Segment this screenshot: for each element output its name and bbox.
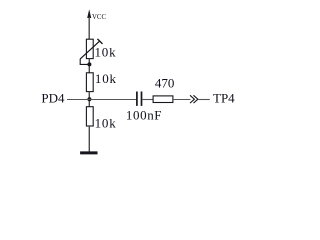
resistor R3 body <box>86 107 93 126</box>
svg-text:10k: 10k <box>95 115 117 130</box>
wire PD4 to capacitor C1 <box>67 99 136 101</box>
ground symbol <box>80 151 97 154</box>
svg-text:VCC: VCC <box>92 14 106 21</box>
potentiometer R1 wiper arrow <box>80 39 102 59</box>
node PD4 junction dot <box>87 97 91 101</box>
wire pot bottom to node A <box>88 59 90 73</box>
VCC supply arrow <box>87 9 91 39</box>
svg-text:10k: 10k <box>95 44 117 59</box>
wire chevron to TP4 <box>199 99 210 101</box>
wire R2 bottom to node PD4 <box>88 92 90 107</box>
wire C1 to resistor R4 <box>142 99 153 101</box>
svg-text:470: 470 <box>155 76 175 91</box>
potentiometer R1 body <box>86 39 93 58</box>
chevron net break symbol <box>190 95 198 103</box>
resistor R2 body <box>86 73 93 92</box>
node A junction dot <box>87 62 91 66</box>
capacitor C1 plates <box>137 92 142 106</box>
resistor R4 body <box>153 96 173 103</box>
wire R3 bottom to ground <box>88 126 90 152</box>
potentiometer R1 wiper return wire <box>80 59 88 65</box>
svg-text:TP4: TP4 <box>213 90 235 105</box>
wire R4 to chevron <box>173 99 191 101</box>
svg-text:PD4: PD4 <box>41 90 65 105</box>
svg-text:10k: 10k <box>95 71 117 86</box>
svg-text:100nF: 100nF <box>126 108 162 123</box>
